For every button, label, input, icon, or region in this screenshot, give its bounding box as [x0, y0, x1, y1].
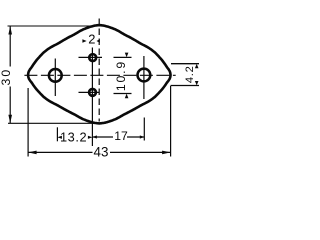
top pin	[89, 54, 96, 61]
lower pin horizontal centerline	[79, 91, 100, 93]
top pin horizontal centerline	[79, 56, 103, 58]
dim 4.2: bottom extension line	[171, 85, 200, 87]
right hole extension to 17 dim	[143, 118, 145, 141]
dim 4.2: top extension line	[171, 63, 199, 65]
flange outline (TO-3 package)	[28, 25, 170, 123]
pin column extension line	[91, 48, 93, 147]
svg-text:10.9: 10.9	[114, 60, 128, 91]
dim 43: right extension line	[170, 86, 172, 157]
horizontal centerline through mounting holes	[24, 74, 175, 76]
svg-text:30: 30	[0, 68, 13, 86]
right mounting hole	[138, 69, 151, 82]
dim 4.2: arrows	[195, 64, 199, 68]
dim 30: bottom extension line	[8, 122, 95, 124]
lower pin	[89, 89, 96, 96]
svg-text:2: 2	[88, 32, 95, 47]
right mounting hole centerline vertical	[143, 56, 145, 99]
dim 30: top extension line	[8, 25, 92, 27]
svg-text:13.2: 13.2	[60, 130, 87, 145]
svg-text:4.2: 4.2	[184, 65, 196, 83]
dim 17: arrows	[92, 135, 97, 138]
vertical package centerline	[98, 19, 100, 122]
left mounting hole centerline vertical	[54, 59, 56, 97]
dim 43: dimension line	[28, 151, 92, 153]
dim 43: arrows	[28, 151, 36, 155]
svg-text:43: 43	[94, 145, 109, 160]
left mounting hole	[49, 69, 62, 82]
dim 2: left arrow	[82, 39, 86, 43]
dim 30: dimension line	[9, 26, 11, 67]
svg-text:17: 17	[114, 129, 128, 143]
dim 2: right arrow	[97, 39, 100, 42]
dim 43: left extension line	[27, 88, 29, 157]
dim 10.9: top extension line	[114, 56, 132, 58]
dim 13.2: arrows	[57, 136, 62, 139]
dim 30: arrows	[8, 26, 12, 35]
dim 10.9: bottom extension line	[114, 93, 132, 95]
dim 10.9: arrows	[125, 53, 129, 58]
dim 13.2: left extension line	[56, 127, 58, 141]
dim 17: dimension line	[92, 136, 113, 138]
